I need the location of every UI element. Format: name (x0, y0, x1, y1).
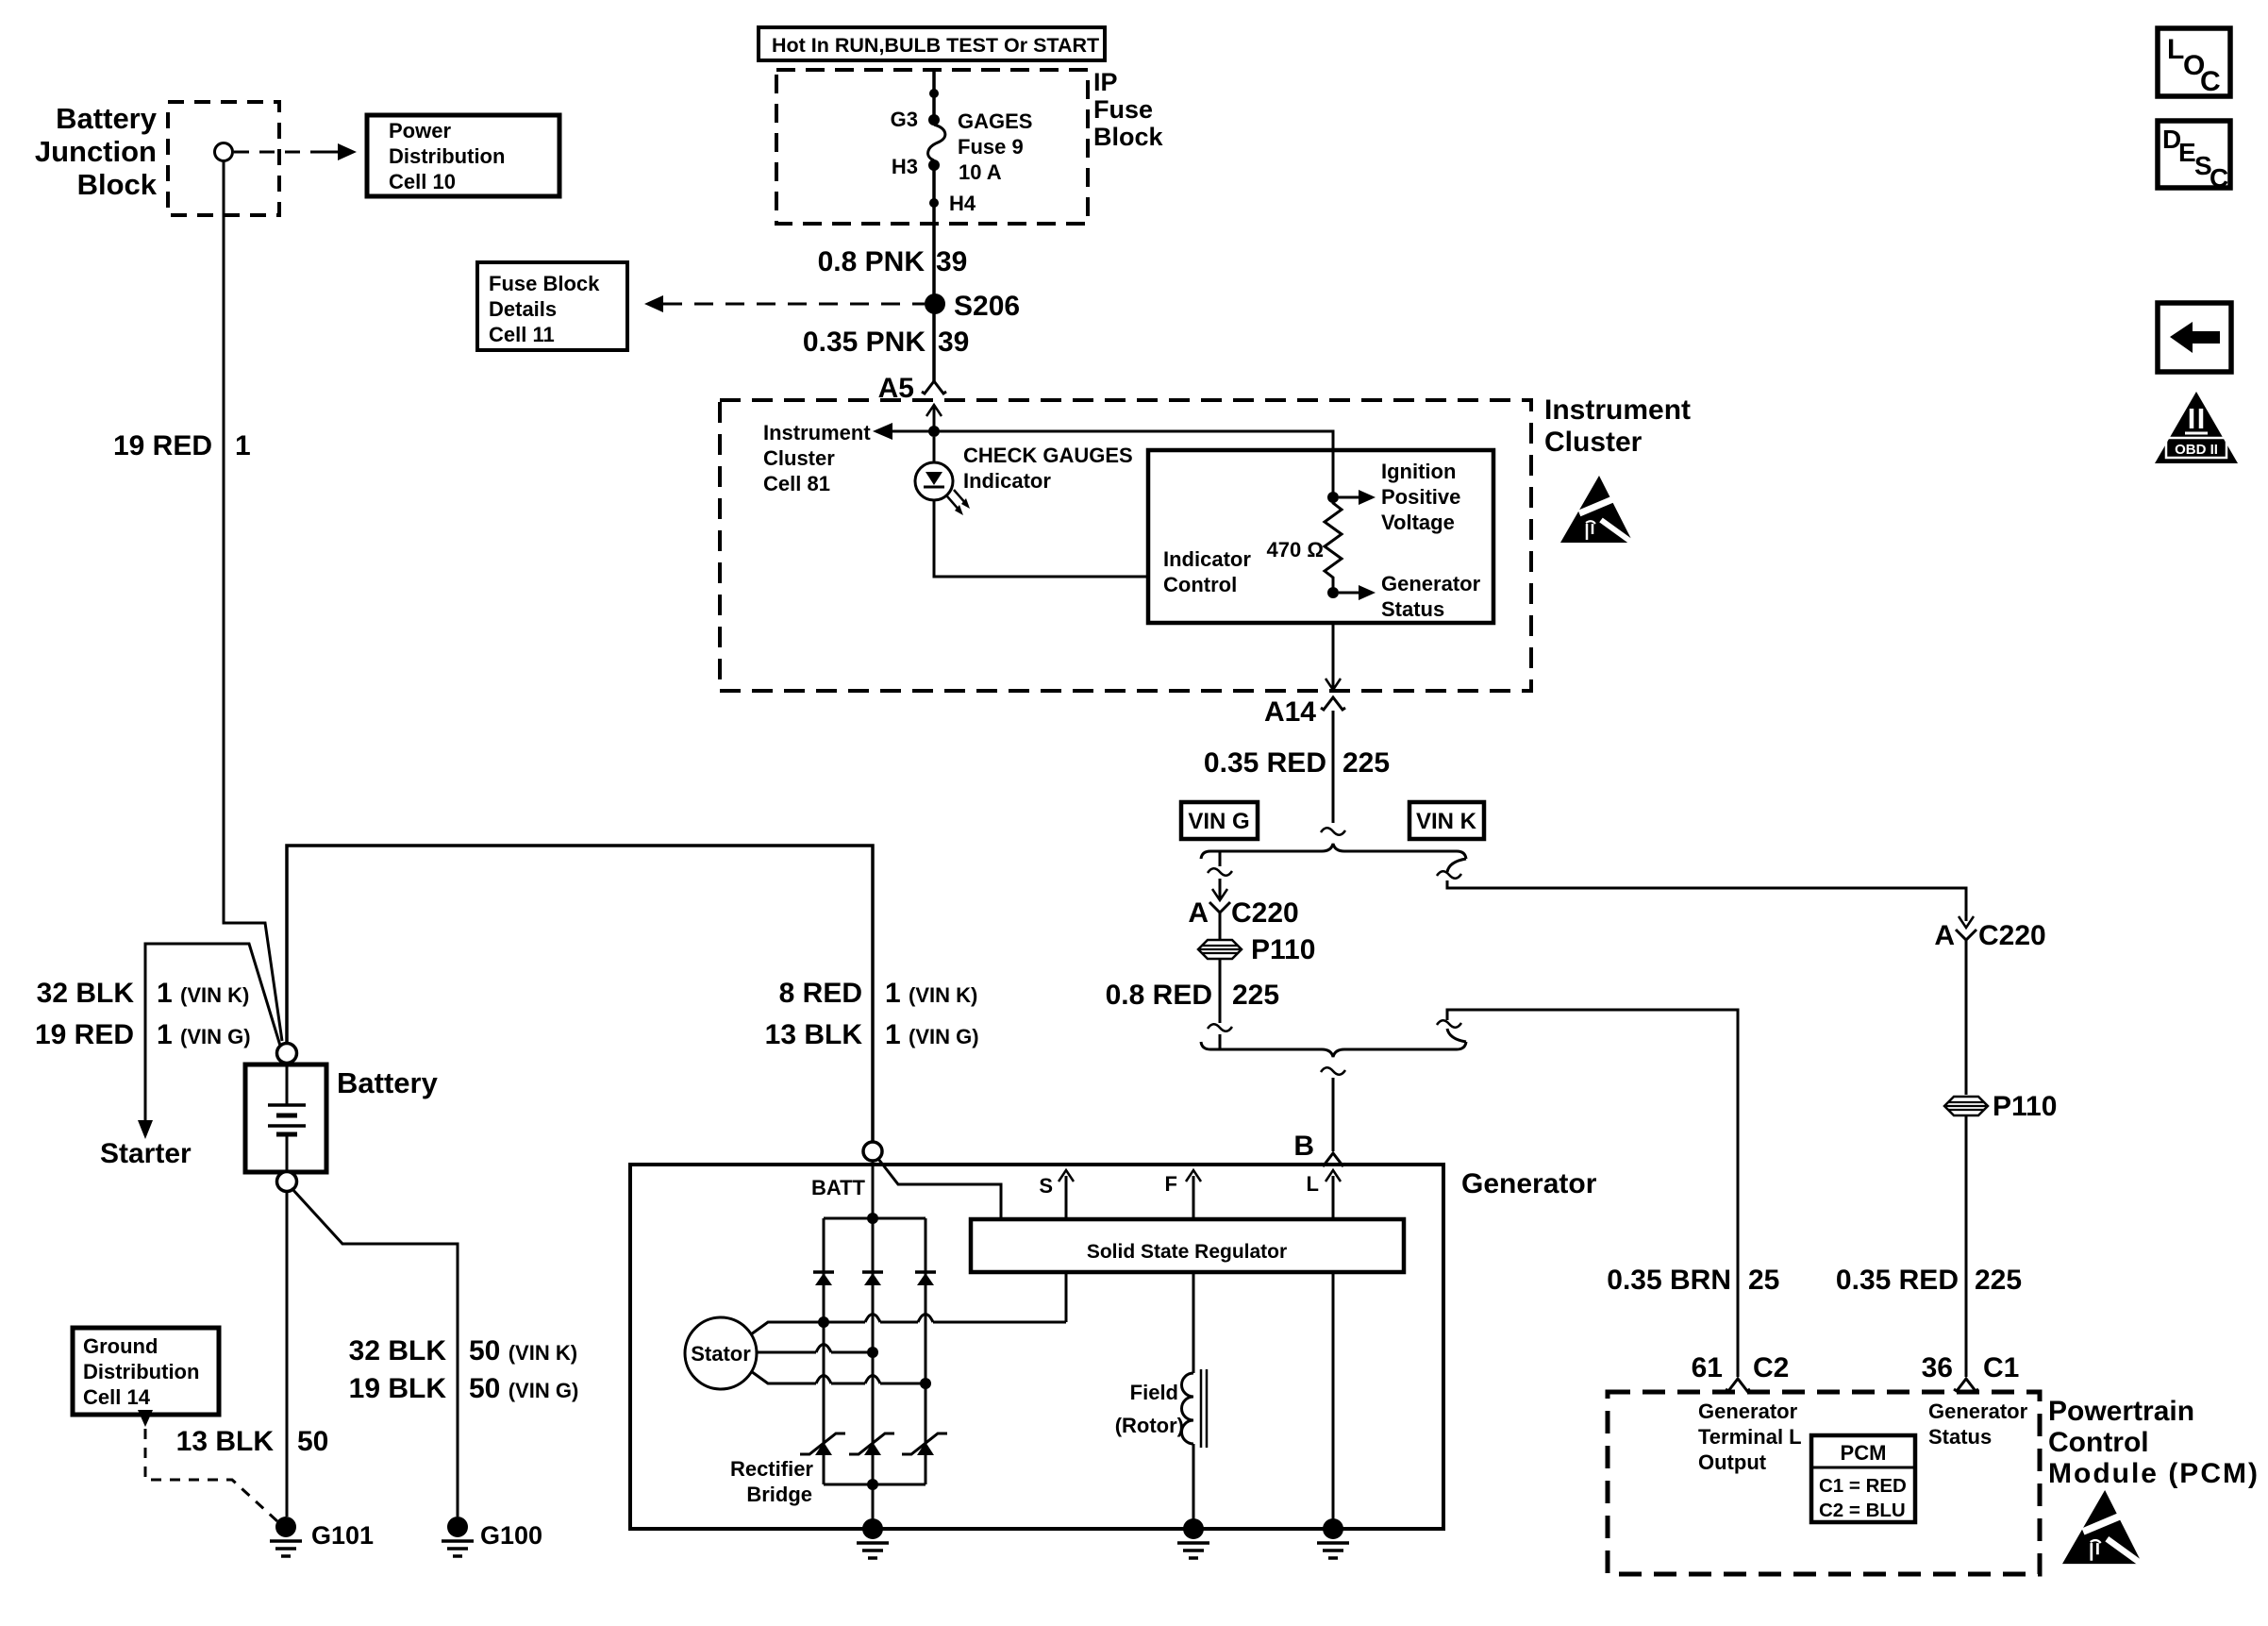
svg-text:Generator: Generator (1381, 572, 1481, 595)
connector C220 pin A (right) (1956, 916, 1976, 940)
stator phase A wire (751, 1315, 1066, 1335)
svg-text:C2: C2 (1753, 1352, 1789, 1383)
svg-text:0.8 PNK: 0.8 PNK (818, 246, 926, 277)
wire: junction to indicator resistor (934, 431, 1333, 497)
label H4 (949, 192, 976, 215)
label Generator Status (PCM) (1928, 1400, 2028, 1449)
wire: fuse feed (932, 70, 936, 381)
svg-text:Control: Control (1163, 573, 1237, 596)
ESD symbol (PCM) (2062, 1490, 2144, 1566)
svg-text:Instrument: Instrument (1544, 394, 1691, 426)
wire: BATT to rectifier bus (872, 1161, 875, 1218)
svg-text:61: 61 (1692, 1352, 1723, 1383)
wire: VIN K branch to right C220 (1437, 859, 1966, 921)
label A C220 (left) (1188, 897, 1298, 929)
label 19 BLK 50 (VIN G) (349, 1373, 579, 1404)
DESC icon (2158, 121, 2230, 193)
label G100 (480, 1521, 542, 1550)
svg-text:0.35 RED: 0.35 RED (1204, 747, 1326, 779)
svg-text:Cell 10: Cell 10 (389, 170, 456, 193)
wire: battery + to generator BATT terminal (287, 846, 873, 1142)
wire: field to ground (1192, 1444, 1195, 1529)
svg-text:Terminal L: Terminal L (1698, 1425, 1802, 1449)
svg-text:Generator: Generator (1698, 1400, 1798, 1423)
node: cluster feed junction (928, 426, 940, 437)
instrument cluster (dashed box) (720, 400, 1531, 691)
svg-text:225: 225 (1975, 1265, 2022, 1296)
arrow ignition positive voltage (1339, 490, 1376, 505)
label 32 BLK 50 (VIN K) (349, 1335, 577, 1366)
label 0.8 PNK 39 (818, 246, 968, 277)
ground distribution cell 14 box (73, 1328, 219, 1415)
svg-text:CHECK GAUGES: CHECK GAUGES (963, 444, 1133, 467)
dashed arrow S206 to fuse block details (644, 295, 925, 312)
svg-text:OBD II: OBD II (2175, 442, 2218, 458)
wire: battery + to starter (138, 944, 280, 1139)
svg-text:Indicator: Indicator (963, 469, 1051, 493)
splice S206 (925, 293, 945, 314)
svg-text:Ignition: Ignition (1381, 460, 1456, 483)
svg-text:13 BLK: 13 BLK (176, 1426, 275, 1457)
stator phase B wire (757, 1345, 878, 1359)
connector 36 C1 (1954, 1379, 1978, 1391)
svg-text:L: L (2167, 34, 2184, 65)
solid state regulator box (971, 1219, 1404, 1272)
label 19 RED 1 (VIN G) (35, 1019, 251, 1050)
field rotor coil (1182, 1369, 1208, 1448)
svg-text:A: A (1188, 897, 1209, 929)
label Field (Rotor) (1115, 1381, 1184, 1437)
svg-text:50: 50 (297, 1426, 328, 1457)
back arrow icon (2158, 303, 2231, 372)
svg-text:Status: Status (1381, 597, 1444, 621)
label 0.35 RED 225 (right) (1836, 1265, 2022, 1296)
svg-text:0.35 PNK: 0.35 PNK (803, 327, 926, 358)
svg-text:Rectifier: Rectifier (730, 1457, 813, 1481)
powertrain control module (dashed box) (1608, 1392, 2040, 1574)
label 0.8 RED 225 (1106, 980, 1279, 1011)
grommet P110 (right) (1944, 1097, 1988, 1115)
battery junction block label (35, 102, 158, 201)
svg-text:Indicator: Indicator (1163, 547, 1251, 571)
svg-text:36: 36 (1922, 1352, 1953, 1383)
label Generator Terminal L Output (1698, 1400, 1802, 1474)
svg-text:0.35 BRN: 0.35 BRN (1607, 1265, 1731, 1296)
svg-text:GAGES: GAGES (958, 109, 1032, 133)
svg-text:Generator: Generator (1461, 1168, 1597, 1199)
fuse block details cell 11 box (477, 262, 627, 350)
svg-text:225: 225 (1232, 980, 1279, 1011)
svg-text:Voltage: Voltage (1381, 511, 1455, 534)
label L (1307, 1172, 1319, 1196)
svg-text:C2 = BLU: C2 = BLU (1819, 1500, 1906, 1521)
label A14 (1264, 696, 1316, 728)
svg-text:F: F (1165, 1172, 1177, 1196)
ground (terminal L) (1317, 1518, 1349, 1558)
node G3 (928, 114, 940, 126)
wire: A5 into cluster (926, 405, 942, 431)
svg-text:Power: Power (389, 119, 451, 142)
hot in run,bulb test or start box (759, 27, 1105, 60)
upper split brace (1201, 844, 1466, 859)
stator phase C wire (751, 1371, 931, 1389)
svg-text:Starter: Starter (100, 1138, 192, 1169)
svg-text:25: 25 (1748, 1265, 1779, 1296)
indicator control box (1148, 450, 1493, 623)
wire: C220 to P110 (left) (1219, 913, 1222, 939)
diode D1 (top, column 1) (813, 1272, 834, 1285)
ESD symbol (instrument cluster) (1560, 476, 1635, 545)
label S (1039, 1174, 1053, 1198)
svg-text:10 A: 10 A (959, 160, 1002, 184)
svg-text:Field: Field (1130, 1381, 1178, 1404)
label 19 RED 1 (113, 430, 251, 461)
svg-text:A: A (1934, 920, 1955, 951)
diode D2 (top, column 2) (862, 1272, 883, 1285)
svg-text:Distribution: Distribution (83, 1360, 199, 1383)
svg-text:G101: G101 (311, 1521, 374, 1550)
arrow terminal L (1326, 1170, 1341, 1219)
svg-text:Hot In RUN,BULB TEST Or START: Hot In RUN,BULB TEST Or START (772, 34, 1099, 57)
power distribution cell 10 box (367, 115, 559, 196)
label P110 (right) (1993, 1091, 2057, 1122)
rectifier column 3 (925, 1218, 927, 1484)
svg-text:13 BLK: 13 BLK (765, 1019, 863, 1050)
svg-text:Solid State Regulator: Solid State Regulator (1087, 1241, 1287, 1263)
wire: C220 right down to P110 (1965, 940, 1968, 1095)
battery B1 (245, 1064, 326, 1172)
VIN G box (1181, 802, 1258, 839)
grommet P110 (left) (1198, 940, 1242, 959)
svg-text:Control: Control (2048, 1427, 2149, 1458)
wire: P110 right to PCM C1 (1965, 1115, 1968, 1377)
svg-text:VIN G: VIN G (1188, 809, 1249, 834)
avalanche diode Z2 (bottom, column 2) (849, 1433, 894, 1455)
svg-text:Stator: Stator (691, 1342, 751, 1366)
OBD II icon (2155, 392, 2238, 463)
svg-text:S: S (1039, 1174, 1053, 1198)
svg-text:Block: Block (77, 168, 158, 201)
svg-text:(Rotor): (Rotor) (1115, 1414, 1184, 1437)
svg-text:Battery: Battery (337, 1066, 439, 1099)
svg-text:Cell 14: Cell 14 (83, 1385, 151, 1409)
label CHECK GAUGES Indicator (963, 444, 1133, 493)
svg-text:225: 225 (1342, 747, 1390, 779)
svg-text:Fuse 9: Fuse 9 (958, 135, 1024, 159)
wire: A14 to VIN split (1332, 711, 1335, 823)
svg-text:BATT: BATT (811, 1176, 866, 1199)
svg-text:Module (PCM): Module (PCM) (2048, 1458, 2260, 1489)
node: battery negative terminal (277, 1172, 297, 1192)
wire: LED to indicator control (934, 500, 1148, 577)
generator box (630, 1165, 1443, 1529)
label 36 C1 (1922, 1352, 2020, 1383)
connector C220 pin A (left) (1209, 879, 1230, 913)
svg-text:Ground: Ground (83, 1334, 158, 1358)
wire: 19 RED 1 from junction block to battery + (224, 161, 282, 1041)
connector B (1321, 1153, 1345, 1165)
svg-text:L: L (1307, 1172, 1319, 1196)
wire: BATT to regulator (878, 1159, 1001, 1219)
label BATT (811, 1176, 866, 1199)
label 470 ohm (1267, 538, 1324, 562)
label IP Fuse Block (1093, 68, 1164, 151)
label 0.35 BRN 25 (1607, 1265, 1779, 1296)
node: battery junction terminal (215, 143, 233, 161)
node: battery positive terminal (277, 1044, 297, 1064)
diode D3 (top, column 3) (915, 1272, 936, 1285)
PCM legend box (1811, 1435, 1915, 1522)
svg-text:Details: Details (489, 297, 557, 321)
label Rectifier Bridge (730, 1457, 813, 1506)
lower merge brace (1201, 1042, 1466, 1057)
svg-text:Status: Status (1928, 1425, 1992, 1449)
label 13 BLK 50 (176, 1426, 329, 1457)
dashed arrow to power distribution (234, 143, 357, 160)
connector A14 (1321, 697, 1345, 710)
svg-text:P110: P110 (1993, 1091, 2057, 1122)
wire: P110 down (0.8 RED) (1208, 959, 1232, 1049)
svg-text:Fuse Block: Fuse Block (489, 272, 600, 295)
svg-text:C220: C220 (1978, 920, 2046, 951)
label Indicator Control (1163, 547, 1251, 596)
rectifier bridge bottom bus (824, 1479, 926, 1490)
label GAGES Fuse 9 10 A (958, 109, 1032, 184)
svg-text:19 RED: 19 RED (35, 1019, 134, 1050)
ground (rectifier) (857, 1518, 889, 1558)
wire break symbol (1321, 828, 1345, 835)
svg-text:Positive: Positive (1381, 485, 1460, 509)
svg-text:32 BLK: 32 BLK (37, 978, 135, 1009)
avalanche diode Z1 (bottom, column 1) (800, 1433, 845, 1455)
label G3 (891, 108, 918, 131)
arrow terminal F (1186, 1170, 1201, 1219)
node dot above fuse (929, 89, 939, 98)
svg-text:470 Ω: 470 Ω (1267, 538, 1324, 562)
svg-text:P110: P110 (1251, 934, 1315, 965)
label 0.35 RED 225 (1204, 747, 1390, 779)
rectifier column 2 (872, 1218, 875, 1484)
avalanche diode Z3 (bottom, column 3) (902, 1433, 947, 1455)
label G101 (311, 1521, 374, 1550)
svg-text:1: 1 (235, 430, 251, 461)
wire: generator L branch (VIN K) to PCM C2 (1437, 1010, 1738, 1377)
svg-text:G3: G3 (891, 108, 918, 131)
label P110 (left) (1251, 934, 1315, 965)
label Ignition Positive Voltage (1381, 460, 1460, 534)
connector A5 (922, 381, 946, 394)
wire: battery - to G100 (292, 1188, 458, 1517)
rectifier bridge top bus (824, 1213, 926, 1224)
node H3 (928, 159, 940, 171)
svg-text:Block: Block (1093, 123, 1164, 151)
svg-text:Distribution: Distribution (389, 144, 505, 168)
label F (1165, 1172, 1177, 1196)
svg-text:B: B (1293, 1131, 1314, 1162)
battery junction block (dashed box) (168, 102, 279, 215)
svg-text:C220: C220 (1231, 897, 1299, 929)
node: generator BATT terminal (863, 1142, 882, 1161)
label A C220 (right) (1934, 920, 2045, 951)
svg-text:0.8 RED: 0.8 RED (1106, 980, 1212, 1011)
wire: F to field (1192, 1272, 1195, 1373)
resistor 470 ohm (1325, 492, 1342, 598)
svg-text:C1: C1 (1983, 1352, 2019, 1383)
svg-text:VIN K: VIN K (1416, 809, 1477, 834)
VIN K box (1409, 802, 1484, 839)
svg-text:C1 = RED: C1 = RED (1819, 1475, 1907, 1497)
fuse 9 element (928, 125, 945, 160)
label 0.35 PNK 39 (803, 327, 969, 358)
svg-text:C: C (2200, 66, 2221, 97)
svg-text:19 BLK: 19 BLK (349, 1373, 447, 1404)
svg-text:IP: IP (1093, 68, 1118, 96)
svg-text:Cluster: Cluster (1544, 427, 1643, 458)
wire: VIN G branch upper stub (1208, 851, 1232, 893)
ground G101 (270, 1517, 302, 1556)
svg-text:Cell 11: Cell 11 (489, 323, 555, 346)
label A5 (878, 373, 914, 404)
svg-text:0.35 RED: 0.35 RED (1836, 1265, 1959, 1296)
label Generator (1461, 1168, 1597, 1199)
svg-text:Powertrain: Powertrain (2048, 1396, 2194, 1427)
label Starter (100, 1138, 192, 1169)
svg-text:Junction: Junction (35, 135, 157, 168)
svg-text:32 BLK: 32 BLK (349, 1335, 447, 1366)
wire: battery - to G101 (286, 1191, 289, 1517)
svg-text:Instrument: Instrument (763, 421, 871, 444)
ground G100 (442, 1517, 474, 1556)
svg-text:Bridge: Bridge (746, 1483, 812, 1506)
label 8 RED 1 (VIN K) (779, 978, 978, 1009)
label H3 (892, 155, 918, 178)
wire: indicator control output to A14 (1326, 623, 1341, 690)
svg-text:Cluster: Cluster (763, 446, 835, 470)
svg-text:E: E (2178, 138, 2196, 167)
connector 61 C2 (1726, 1379, 1750, 1391)
wire: rectifier to ground (872, 1484, 875, 1529)
rectifier column 1 (823, 1218, 825, 1484)
arrow terminal S (1059, 1170, 1074, 1219)
wire: L to ground (1332, 1272, 1335, 1529)
IP fuse block (dashed box) (776, 70, 1088, 224)
svg-text:Cell 81: Cell 81 (763, 472, 830, 495)
label 32 BLK 1 (VIN K) (37, 978, 250, 1009)
svg-text:G100: G100 (480, 1521, 542, 1550)
svg-text:H4: H4 (949, 192, 976, 215)
node H4 (929, 198, 939, 208)
label S206 (954, 291, 1020, 322)
LED check gauges indicator (915, 437, 970, 515)
wire: S to stator sense (1065, 1272, 1068, 1322)
label Instrument Cluster (1544, 394, 1691, 458)
svg-text:Fuse: Fuse (1093, 95, 1153, 124)
stator (685, 1317, 757, 1389)
svg-text:PCM: PCM (1841, 1441, 1887, 1465)
label Powertrain Control Module (PCM) (2048, 1396, 2260, 1489)
svg-text:8 RED: 8 RED (779, 978, 862, 1009)
svg-text:19 RED: 19 RED (113, 430, 212, 461)
label 61 C2 (1692, 1352, 1790, 1383)
svg-text:C: C (2210, 163, 2228, 193)
LOC icon (2158, 28, 2230, 97)
arrow to instrument cluster cell 81 (873, 423, 934, 440)
svg-text:39: 39 (938, 327, 969, 358)
label Generator Status (cluster) (1381, 572, 1481, 621)
label 13 BLK 1 (VIN G) (765, 1019, 979, 1050)
wire: merged output to generator B (1321, 1067, 1345, 1151)
svg-text:A14: A14 (1264, 696, 1316, 728)
label Battery (337, 1066, 439, 1099)
svg-text:Output: Output (1698, 1450, 1767, 1474)
dashed arrow ground distribution to G101 (138, 1410, 277, 1521)
svg-text:Generator: Generator (1928, 1400, 2028, 1423)
ground (field) (1177, 1518, 1209, 1558)
svg-text:39: 39 (936, 246, 967, 277)
svg-text:H3: H3 (892, 155, 918, 178)
svg-text:S206: S206 (954, 291, 1020, 322)
label Instrument Cluster Cell 81 (763, 421, 871, 495)
arrow generator status (cluster) (1339, 585, 1376, 600)
svg-text:Battery: Battery (56, 102, 158, 135)
label B (1293, 1131, 1314, 1162)
